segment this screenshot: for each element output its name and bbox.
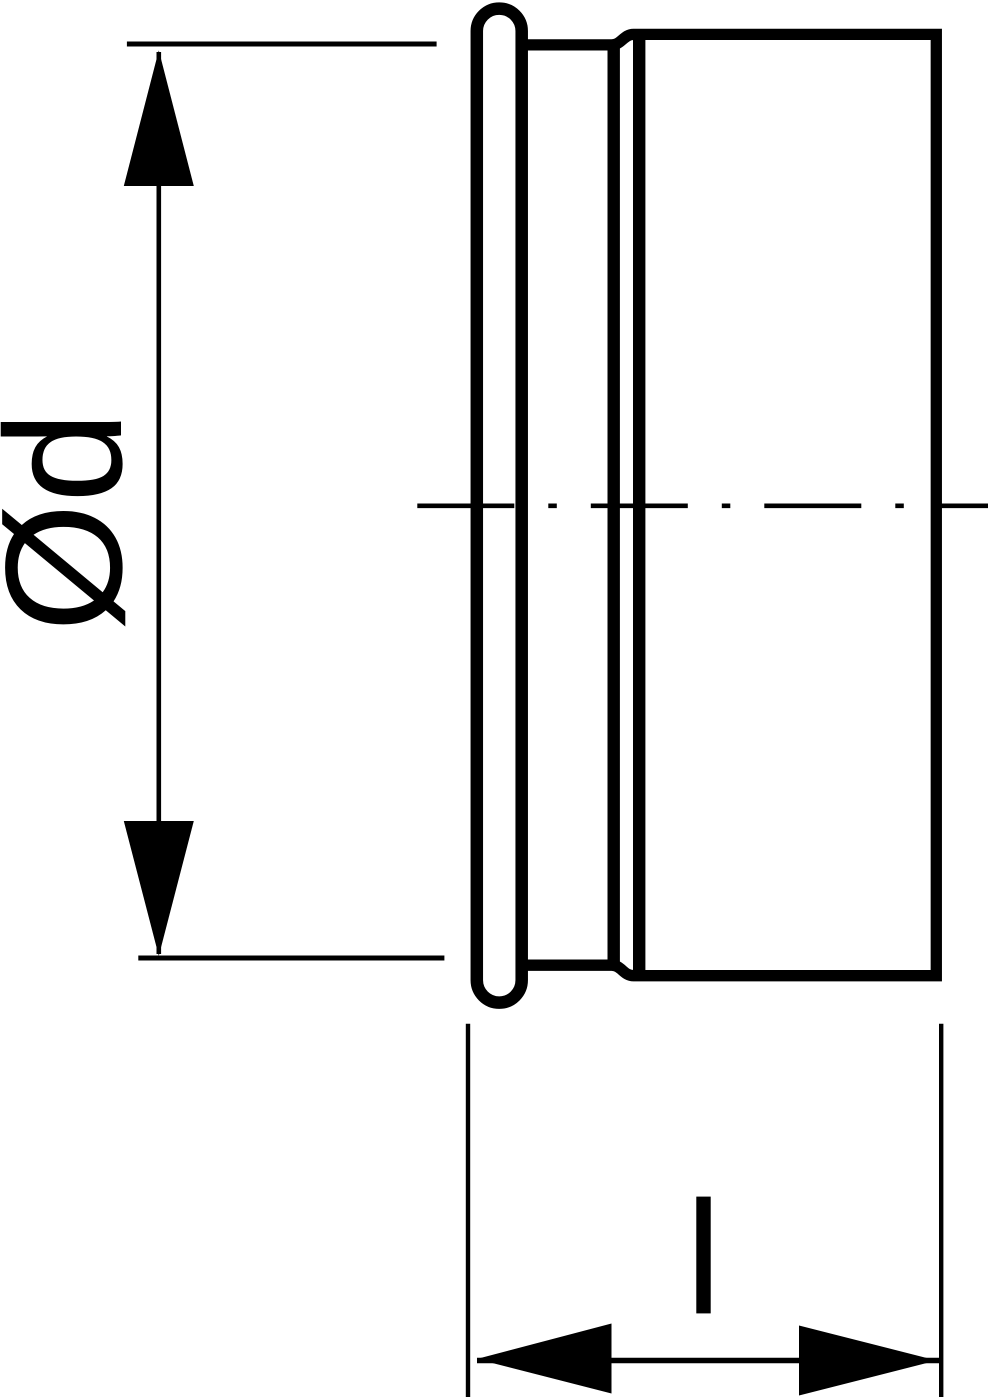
svg-text:Ød: Ød (0, 411, 157, 632)
